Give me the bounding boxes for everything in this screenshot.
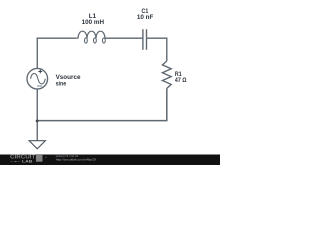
svg-text:LAB: LAB [22,159,33,163]
inductor L1 bottom loop 3 [103,38,106,43]
wire right rail bottom [37,88,167,120]
inductor L1 bottom loop 2 [94,38,97,43]
wire inductor to capacitor [106,37,143,39]
capacitor C1 [143,29,147,50]
voltage source sine wave [31,73,46,84]
svg-text:−▪−: −▪− [10,159,21,163]
svg-text:sine: sine [56,81,67,87]
voltage source minus sign [37,85,42,87]
ground symbol [29,141,45,149]
voltage source V1 circle [27,68,48,89]
svg-text:47 Ω: 47 Ω [175,78,187,84]
svg-text:Vsource: Vsource [56,74,81,81]
wire capacitor to right corner [147,38,167,61]
wire left rail top [37,38,76,68]
wire source bottom to ground node [36,89,38,141]
resistor R1 [162,61,171,88]
inductor L1 coil arches [76,31,106,38]
voltage source plus sign [38,70,42,74]
svg-text:http://circuitlab.com/c4kjn29: http://circuitlab.com/c4kjn29 [56,158,96,162]
junction node dot [36,120,39,123]
svg-text:10 nF: 10 nF [137,14,154,21]
watermark bar [0,155,220,166]
inductor L1 bottom loop 1 [85,38,88,43]
svg-text:100 mH: 100 mH [82,19,105,26]
watermark logo chip block [36,155,43,162]
